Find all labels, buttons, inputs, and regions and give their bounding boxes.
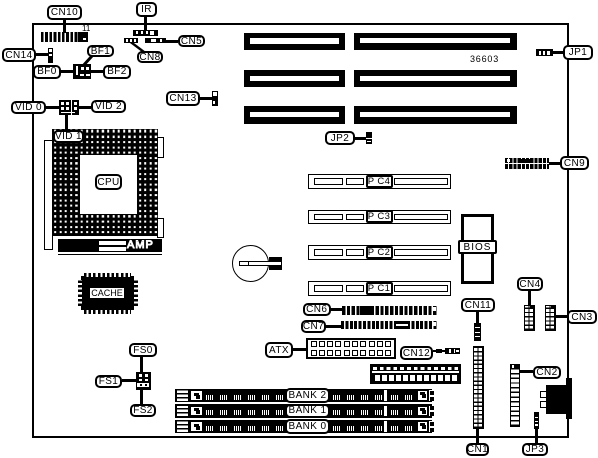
leader FS0: [140, 357, 143, 372]
leader VID1: [65, 115, 68, 131]
keyboard connector body: [546, 385, 567, 414]
leader ATX: [293, 348, 306, 351]
leader VID2: [79, 106, 92, 109]
label BANK 0: [285, 419, 330, 434]
leader BF2: [91, 70, 103, 73]
label FS2: [130, 404, 156, 417]
connector IR: [133, 30, 158, 36]
connector JP3: [534, 412, 540, 429]
cache chip body: [81, 276, 134, 310]
label CN13: [166, 91, 200, 106]
PCI slot PC1: [308, 281, 451, 296]
connector CN10: [41, 32, 88, 42]
ISA slot row3 right: [354, 106, 517, 124]
leader CN6: [330, 308, 342, 311]
leader CN5: [165, 40, 178, 43]
jumper block FS: [136, 372, 151, 390]
connector CN12: [436, 349, 442, 353]
label FS1: [95, 375, 122, 388]
connector CN1: [473, 346, 484, 429]
leader CN12: [433, 350, 436, 353]
label CPU: [95, 174, 122, 190]
leader FS2: [140, 390, 143, 404]
PCI slot PC4: [308, 174, 451, 189]
leader CN3: [556, 315, 568, 318]
label CN9: [560, 156, 589, 170]
connector comb: [370, 364, 461, 384]
label BF0: [33, 65, 61, 79]
leader CN2: [520, 370, 533, 373]
connector JP2: [366, 132, 372, 144]
ISA slot row2 left: [244, 70, 345, 87]
leader JP2: [355, 137, 366, 140]
connector ATX: [306, 338, 396, 360]
CPU left lever bar: [44, 140, 53, 250]
label CN11: [461, 298, 495, 312]
label IR: [136, 2, 157, 17]
connector CN5: [145, 38, 166, 43]
label CN3: [567, 310, 597, 324]
connector CN7: [341, 321, 438, 329]
label CN4: [517, 277, 543, 291]
label PC2: [366, 246, 393, 259]
leader JP1: [553, 51, 564, 54]
label PC4: [366, 175, 393, 188]
label CN2: [533, 366, 561, 379]
SIMM bank1 row: [175, 404, 432, 418]
leader VID0: [46, 106, 59, 109]
label VID1: [53, 130, 84, 143]
CPU socket: [52, 129, 158, 236]
leader CN7: [326, 325, 341, 328]
label PC1: [366, 282, 393, 295]
label BIOS: [458, 240, 497, 254]
PCI slot PC2: [308, 245, 451, 260]
battery slot: [239, 261, 282, 266]
label PC3: [366, 210, 393, 223]
keyboard connector tab bottom: [540, 401, 547, 408]
connector CN6: [342, 306, 438, 315]
jumper block VID: [59, 100, 79, 115]
text 11: [82, 24, 90, 33]
leader CN11: [476, 311, 479, 323]
label CACHE: [89, 287, 125, 299]
connector CN8: [124, 38, 138, 43]
ISA slot row1 left: [244, 33, 345, 50]
SIMM bank0 row: [175, 420, 432, 434]
leader IR: [144, 16, 147, 30]
label CN14: [2, 48, 36, 62]
connector CN11: [474, 323, 481, 341]
battery circle: [232, 245, 269, 282]
leader FS1: [122, 379, 136, 382]
label JP1: [563, 45, 593, 60]
CPU right clip top: [157, 137, 164, 158]
label VID2: [91, 100, 126, 113]
connector CN3: [545, 305, 556, 331]
text 36603: [470, 54, 499, 64]
text AMP: [127, 239, 161, 253]
label CN7: [301, 320, 326, 333]
label CN5: [178, 35, 205, 47]
label CN1: [466, 443, 489, 456]
connector CN9: [505, 158, 549, 169]
PCI slot PC3: [308, 210, 451, 225]
label BANK 2: [285, 388, 330, 403]
BIOS chip: [461, 214, 494, 284]
leader CN13: [200, 97, 212, 100]
keyboard connector tab top: [540, 391, 547, 398]
label VID0: [11, 101, 46, 114]
connector JP1: [536, 49, 553, 56]
AMP underline: [58, 254, 162, 256]
label CN12: [400, 346, 433, 360]
CPU right clip bottom: [157, 218, 164, 238]
label CN10: [47, 5, 82, 20]
leader CN4: [528, 291, 531, 305]
CPU socket inner window: [80, 155, 137, 214]
label BF2: [103, 65, 131, 79]
leader CN10: [63, 19, 66, 33]
battery tab block: [269, 257, 282, 270]
ISA slot row1 right: [354, 33, 517, 50]
label JP3: [522, 443, 548, 456]
cache chip pins top: [84, 273, 131, 277]
ISA slot row3 left: [244, 106, 345, 124]
label FS0: [129, 343, 157, 357]
connector CN4: [524, 305, 535, 331]
leader CN9: [549, 162, 560, 165]
jumper block BF: [73, 64, 91, 79]
connector CN14: [48, 48, 54, 63]
leader BF0: [61, 70, 73, 73]
ISA slot row2 right: [354, 70, 517, 87]
connector CN2: [510, 364, 520, 427]
leader CN14: [36, 53, 48, 56]
label ATX: [265, 342, 293, 358]
label CN6: [303, 303, 331, 316]
AMP bar: [58, 239, 163, 253]
connector CN13: [212, 91, 218, 106]
label BANK 1: [285, 404, 330, 419]
keyboard connector flange: [566, 378, 572, 419]
cache chip pins bottom: [84, 310, 131, 314]
label JP2: [325, 131, 355, 145]
label BF1: [87, 45, 114, 57]
leader CN1: [476, 429, 479, 443]
cache chip pins left: [78, 280, 82, 306]
leader JP3: [535, 429, 538, 444]
label CN8: [137, 51, 163, 63]
SIMM bank2 row: [175, 389, 432, 403]
cache chip pins right: [134, 280, 139, 306]
